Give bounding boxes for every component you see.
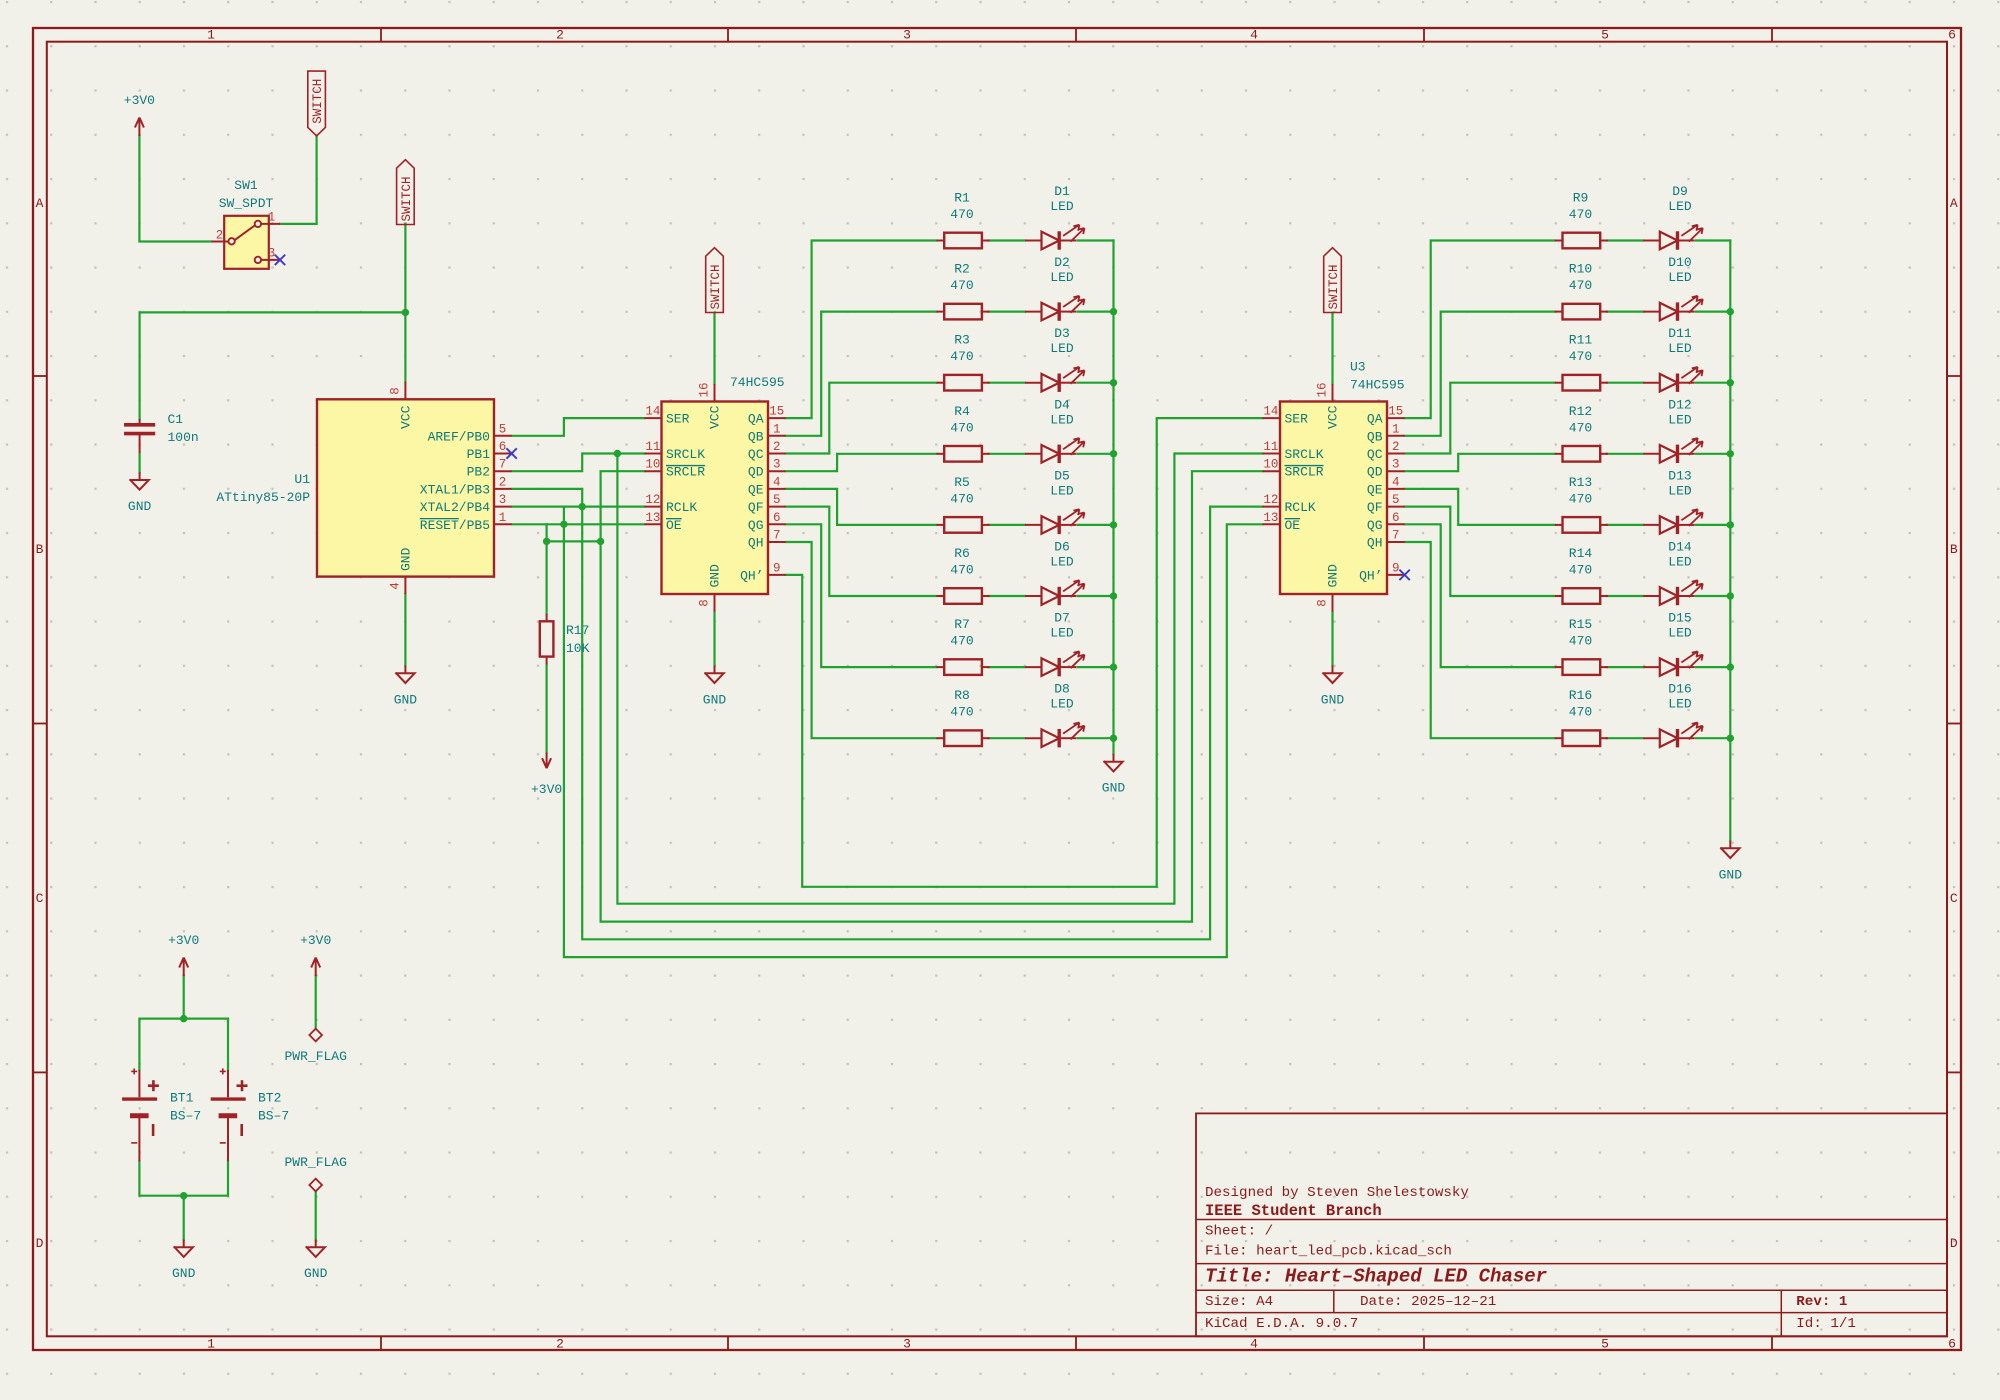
junction OE — [560, 521, 567, 528]
svg-text:15: 15 — [1388, 405, 1403, 419]
resistor R11 470 — [1563, 375, 1601, 391]
wire R15 to D15 — [1607, 666, 1644, 668]
U3 pin 16 VCC — [1332, 384, 1334, 402]
wire net OE drop to U3.13 — [564, 507, 1263, 957]
svg-text:3: 3 — [1392, 458, 1400, 472]
title block outline — [1196, 1113, 1947, 1336]
U2 pin 11 SRCLK — [644, 453, 661, 455]
svg-text:D9: D9 — [1672, 184, 1688, 199]
svg-text:1: 1 — [268, 211, 276, 225]
junction LED bus — [1110, 521, 1117, 528]
wire D6 to GND bus — [1078, 595, 1114, 597]
wire battery bracket to GND — [183, 1196, 185, 1240]
ground symbol right LED bus — [1729, 841, 1731, 849]
svg-text:16: 16 — [1316, 382, 1330, 397]
svg-text:D4: D4 — [1054, 397, 1070, 412]
svg-text:LED: LED — [1050, 483, 1074, 498]
U3 pin 12 RCLK — [1262, 506, 1280, 508]
svg-text:B: B — [36, 542, 44, 557]
U2 pin 12 RCLK — [644, 506, 661, 508]
LED D12 — [1643, 453, 1660, 455]
svg-text:+3V0: +3V0 — [531, 782, 562, 797]
svg-text:SRCLK: SRCLK — [666, 447, 705, 462]
svg-text:U1: U1 — [294, 472, 310, 487]
U2 pin 8 GND — [714, 594, 716, 612]
wire net SRCLK drop to U3.11 — [617, 454, 1262, 904]
svg-text:5: 5 — [499, 422, 507, 436]
svg-text:1: 1 — [499, 511, 507, 525]
U1 pin 5 AREF/PB0 — [494, 435, 512, 437]
wire SWITCH label to U2 VCC pin 16 — [713, 313, 715, 384]
svg-text:BS–7: BS–7 — [258, 1109, 289, 1124]
svg-text:A: A — [36, 196, 44, 211]
svg-text:R16: R16 — [1569, 688, 1592, 703]
svg-text:D15: D15 — [1668, 611, 1691, 626]
svg-text:GND: GND — [399, 547, 414, 571]
U2 pin 9 QH’ — [768, 574, 786, 576]
svg-text:9: 9 — [1392, 561, 1400, 575]
U2 pin 10 SRCLR — [644, 470, 661, 472]
U2 pin 15 QA — [768, 417, 786, 419]
U1 pin 3 XTAL2/PB4 — [494, 506, 512, 508]
power symbol +3V0 above PWR_FLAG — [315, 958, 317, 977]
svg-text:13: 13 — [1263, 511, 1278, 525]
svg-text:RESET/PB5: RESET/PB5 — [420, 518, 490, 533]
wire +3V0 to SW1 pin 2 — [139, 136, 211, 242]
svg-text:PWR_FLAG: PWR_FLAG — [284, 1049, 346, 1064]
power flag PWR_FLAG lower — [309, 1179, 322, 1192]
wire C1 to VCC net — [140, 312, 406, 419]
svg-text:470: 470 — [950, 705, 973, 720]
U3 pin 14 SER — [1262, 417, 1280, 419]
resistor R9 470 — [1563, 233, 1601, 249]
svg-text:9: 9 — [773, 561, 781, 575]
svg-text:R5: R5 — [954, 475, 970, 490]
junction LED bus — [1110, 592, 1117, 599]
resistor R8 470 — [944, 730, 982, 746]
LED D2 — [1025, 311, 1042, 313]
resistor R2 470 — [944, 304, 982, 320]
svg-text:Rev: 1: Rev: 1 — [1796, 1294, 1847, 1310]
svg-text:QF: QF — [748, 500, 764, 515]
wire R6 to D6 — [989, 595, 1026, 597]
power symbol +3V0 top-left — [138, 118, 140, 137]
svg-text:+3V0: +3V0 — [124, 93, 155, 108]
svg-text:QB: QB — [748, 429, 764, 444]
svg-text:470: 470 — [950, 491, 973, 506]
svg-text:LED: LED — [1050, 270, 1074, 285]
svg-text:A: A — [1950, 196, 1958, 211]
svg-text:7: 7 — [773, 529, 781, 543]
svg-text:LED: LED — [1668, 199, 1692, 214]
svg-text:470: 470 — [950, 278, 973, 293]
frame column ticks bottom — [381, 1336, 1772, 1350]
resistor R5 470 — [944, 517, 982, 533]
svg-text:QH’: QH’ — [740, 568, 763, 583]
svg-text:R10: R10 — [1569, 262, 1592, 277]
wire U2 QH to R8 — [786, 542, 937, 738]
svg-text:R11: R11 — [1569, 333, 1593, 348]
junction SRCLK — [614, 450, 621, 457]
svg-text:Date: 2025–12–21: Date: 2025–12–21 — [1360, 1294, 1496, 1310]
svg-text:Sheet: /: Sheet: / — [1205, 1224, 1273, 1240]
svg-text:KiCad E.D.A. 9.0.7: KiCad E.D.A. 9.0.7 — [1205, 1316, 1358, 1332]
svg-text:GND: GND — [1321, 692, 1345, 707]
frame column ticks top — [381, 28, 1772, 42]
LED D4 — [1025, 453, 1042, 455]
svg-text:D16: D16 — [1668, 682, 1691, 697]
svg-text:SW_SPDT: SW_SPDT — [219, 196, 274, 211]
wire left LED GND bus — [1112, 241, 1114, 755]
svg-text:File: heart_led_pcb.kicad_sch: File: heart_led_pcb.kicad_sch — [1205, 1244, 1452, 1260]
svg-text:D14: D14 — [1668, 540, 1692, 555]
wire R7 to D7 — [989, 666, 1026, 668]
svg-text:OE: OE — [666, 518, 682, 533]
LED D5 — [1025, 524, 1042, 526]
wire D5 to GND bus — [1078, 524, 1114, 526]
frame row labels right — [1950, 196, 1958, 1251]
svg-text:SRCLR: SRCLR — [666, 465, 705, 480]
wire U3 QF to R14 — [1405, 507, 1555, 596]
LED D8 — [1025, 737, 1042, 739]
wire right LED GND bus — [1729, 241, 1731, 841]
svg-text:6: 6 — [1948, 1336, 1956, 1351]
svg-text:14: 14 — [645, 405, 660, 419]
wire D13 to GND bus — [1696, 524, 1731, 526]
wire R1 to D1 — [989, 239, 1026, 241]
svg-text:8: 8 — [698, 599, 712, 607]
wire D15 to GND bus — [1696, 666, 1731, 668]
U3 pin 5 QF — [1387, 506, 1405, 508]
svg-text:8: 8 — [388, 387, 402, 395]
junction right LED bus — [1727, 308, 1734, 315]
svg-text:D2: D2 — [1054, 255, 1070, 270]
svg-text:RCLK: RCLK — [666, 500, 697, 515]
svg-text:QC: QC — [748, 447, 764, 462]
junction right LED bus — [1727, 379, 1734, 386]
svg-text:QA: QA — [748, 412, 764, 427]
svg-text:2: 2 — [556, 28, 564, 43]
svg-text:6: 6 — [773, 511, 781, 525]
svg-text:GND: GND — [304, 1266, 328, 1281]
U3 pin 6 QG — [1387, 523, 1405, 525]
wire net RCLK drop to U3.12 — [582, 507, 1262, 940]
svg-text:D5: D5 — [1054, 468, 1070, 483]
svg-text:Designed by Steven Shelestowsk: Designed by Steven Shelestowsky — [1205, 1185, 1469, 1201]
U3 pin 11 SRCLK — [1262, 453, 1280, 455]
no-connect X on U1 pin 6 PB1 — [506, 448, 516, 458]
wire C1 to GND — [139, 453, 141, 472]
LED D16 — [1643, 737, 1660, 739]
svg-text:VCC: VCC — [1326, 405, 1341, 429]
svg-text:R13: R13 — [1569, 475, 1592, 490]
svg-text:LED: LED — [1668, 412, 1692, 427]
power symbol +3V0 above batteries — [183, 958, 185, 977]
junction right LED bus — [1727, 735, 1734, 742]
svg-text:D10: D10 — [1668, 255, 1691, 270]
svg-text:QE: QE — [748, 482, 764, 497]
svg-text:13: 13 — [645, 511, 660, 525]
svg-text:OE: OE — [1285, 518, 1301, 533]
wire U3 QD to R12 — [1405, 454, 1555, 471]
U2 pin 6 QG — [768, 523, 786, 525]
wire U2 QC to R3 — [786, 383, 937, 454]
U1 pin 1 RESET/PB5 — [494, 523, 512, 525]
svg-text:4: 4 — [1250, 1336, 1258, 1351]
resistor R14 470 — [1563, 588, 1601, 604]
wire U2 pin 8 to GND — [713, 612, 715, 666]
wire D16 to GND bus — [1696, 737, 1731, 739]
svg-text:VCC: VCC — [399, 405, 414, 429]
svg-text:+3V0: +3V0 — [300, 933, 331, 948]
LED D13 — [1643, 524, 1660, 526]
svg-text:LED: LED — [1668, 483, 1692, 498]
U2 pin 3 QD — [768, 470, 786, 472]
LED D1 — [1025, 240, 1042, 242]
junction R17 net — [543, 538, 550, 545]
svg-text:RCLK: RCLK — [1285, 500, 1316, 515]
svg-text:QG: QG — [748, 518, 764, 533]
wire R9 to D9 — [1607, 239, 1644, 241]
U3 pin 8 GND — [1332, 594, 1334, 612]
power flag PWR_FLAG upper — [309, 1029, 322, 1042]
svg-text:U3: U3 — [1350, 360, 1366, 375]
svg-text:R7: R7 — [954, 617, 970, 632]
resistor R1 470 — [944, 233, 982, 249]
LED D9 — [1643, 240, 1660, 242]
svg-text:R8: R8 — [954, 688, 970, 703]
wire U2 QB to R2 — [786, 312, 937, 436]
svg-text:+3V0: +3V0 — [168, 933, 199, 948]
svg-text:7: 7 — [1392, 529, 1400, 543]
svg-text:470: 470 — [1569, 207, 1592, 222]
U1 pin 4 GND — [404, 577, 406, 595]
junction RCLK — [579, 503, 586, 510]
svg-text:SER: SER — [666, 412, 690, 427]
junction right LED bus — [1727, 450, 1734, 457]
U2 pin 4 QE — [768, 488, 786, 490]
wire U3 QC to R11 — [1405, 383, 1555, 454]
svg-text:R14: R14 — [1569, 546, 1593, 561]
IC U2 74HC595 body — [662, 402, 769, 595]
U3 pin 3 QD — [1387, 470, 1405, 472]
U3 pin 4 QE — [1387, 488, 1405, 490]
svg-text:R4: R4 — [954, 404, 970, 419]
svg-text:6: 6 — [1392, 511, 1400, 525]
svg-text:470: 470 — [1569, 563, 1592, 578]
svg-text:XTAL1/PB3: XTAL1/PB3 — [420, 482, 490, 497]
svg-text:C: C — [36, 891, 44, 906]
svg-text:74HC595: 74HC595 — [1350, 378, 1405, 393]
U1 pin 2 XTAL1/PB3 — [494, 488, 512, 490]
svg-text:Id: 1/1: Id: 1/1 — [1796, 1316, 1856, 1332]
svg-text:LED: LED — [1668, 697, 1692, 712]
wire R17 to +3V0 — [545, 664, 547, 752]
frame column labels bottom — [207, 1336, 1956, 1351]
LED D14 — [1643, 595, 1660, 597]
wire +3V0 to battery bracket — [183, 976, 185, 1019]
svg-text:R15: R15 — [1569, 617, 1592, 632]
svg-text:2: 2 — [773, 440, 781, 454]
svg-text:BT2: BT2 — [258, 1091, 281, 1106]
svg-text:4: 4 — [1250, 28, 1258, 43]
resistor R17 10K — [540, 614, 554, 665]
svg-text:10: 10 — [645, 458, 660, 472]
ground symbol left LED bus — [1113, 754, 1115, 762]
wire R11 to D11 — [1607, 382, 1644, 384]
svg-text:GND: GND — [1102, 781, 1126, 796]
svg-text:5: 5 — [1601, 28, 1609, 43]
svg-text:GND: GND — [703, 692, 727, 707]
LED D3 — [1025, 382, 1042, 384]
svg-text:LED: LED — [1050, 697, 1074, 712]
global label SWITCH above U1 — [397, 160, 415, 225]
U2 pin 5 QF — [768, 506, 786, 508]
U1 pin 8 VCC — [404, 382, 406, 400]
svg-text:D12: D12 — [1668, 397, 1691, 412]
svg-text:12: 12 — [1263, 493, 1278, 507]
U2 pin 13 OE — [644, 523, 661, 525]
U3 pin 9 QH’ — [1387, 574, 1405, 576]
ground symbol below U3 — [1332, 666, 1334, 674]
svg-text:470: 470 — [950, 420, 973, 435]
wire PWR_FLAG to GND — [315, 1191, 317, 1239]
wire net QH' U2.9 to U3.14 SER — [786, 418, 1263, 887]
U3 pin 7 QH — [1387, 541, 1405, 543]
LED D15 — [1643, 666, 1660, 668]
svg-text:4: 4 — [388, 582, 402, 590]
svg-text:R17: R17 — [566, 623, 589, 638]
wire R4 to D4 — [989, 453, 1026, 455]
junction LED bus — [1110, 663, 1117, 670]
svg-text:QA: QA — [1367, 412, 1383, 427]
svg-text:11: 11 — [645, 440, 660, 454]
svg-text:3: 3 — [903, 28, 911, 43]
svg-text:LED: LED — [1050, 341, 1074, 356]
svg-text:470: 470 — [1569, 420, 1592, 435]
svg-text:5: 5 — [773, 493, 781, 507]
svg-text:D11: D11 — [1668, 326, 1692, 341]
wire SWITCH label to U1 VCC pin 8 — [404, 224, 406, 382]
svg-text:SWITCH: SWITCH — [311, 79, 325, 124]
frame column labels top — [207, 28, 1956, 43]
svg-text:5: 5 — [1601, 1336, 1609, 1351]
wire SWITCH label to SW1 pin 1 — [280, 136, 317, 224]
svg-text:5: 5 — [1392, 493, 1400, 507]
svg-text:1: 1 — [1392, 422, 1400, 436]
svg-text:SWITCH: SWITCH — [1327, 264, 1341, 309]
svg-text:R1: R1 — [954, 191, 970, 206]
svg-text:QH: QH — [1367, 536, 1383, 551]
resistor R16 470 — [1563, 730, 1601, 746]
svg-text:D8: D8 — [1054, 682, 1070, 697]
svg-text:D6: D6 — [1054, 540, 1070, 555]
wire R14 to D14 — [1607, 595, 1644, 597]
junction battery top — [180, 1015, 187, 1022]
svg-text:IEEE Student Branch: IEEE Student Branch — [1205, 1202, 1382, 1220]
svg-text:SRCLR: SRCLR — [1285, 465, 1324, 480]
ground symbol below U2 — [714, 666, 716, 674]
svg-text:LED: LED — [1050, 555, 1074, 570]
svg-text:QG: QG — [1367, 518, 1383, 533]
svg-text:470: 470 — [1569, 491, 1592, 506]
frame row labels left — [36, 196, 44, 1251]
battery BT1 BS-7 — [122, 1068, 159, 1161]
svg-text:C: C — [1950, 891, 1958, 906]
svg-text:LED: LED — [1050, 626, 1074, 641]
svg-text:2: 2 — [556, 1336, 564, 1351]
svg-text:B: B — [1950, 542, 1958, 557]
IC U1 ATtiny85-20P body — [317, 399, 494, 576]
wire net SER U1.5 to U2.14 — [512, 418, 645, 436]
wire U1 pin 4 to GND — [404, 594, 406, 665]
svg-text:Size: A4: Size: A4 — [1205, 1294, 1273, 1310]
no-connect X on U3 pin 9 QH' — [1399, 570, 1409, 580]
svg-text:LED: LED — [1668, 626, 1692, 641]
svg-text:2: 2 — [216, 228, 224, 242]
wire U3 QG to R15 — [1405, 524, 1555, 667]
U2 pin 1 QB — [768, 435, 786, 437]
ground symbol below C1 — [139, 472, 141, 480]
svg-text:D: D — [1950, 1236, 1958, 1251]
svg-text:R12: R12 — [1569, 404, 1592, 419]
wire tie OE-SRCLR — [547, 540, 601, 542]
svg-text:6: 6 — [499, 440, 507, 454]
svg-text:QD: QD — [1367, 465, 1383, 480]
svg-text:R2: R2 — [954, 262, 970, 277]
svg-text:470: 470 — [1569, 349, 1592, 364]
svg-text:2: 2 — [499, 475, 507, 489]
svg-text:QH’: QH’ — [1359, 568, 1382, 583]
U2 pin 7 QH — [768, 541, 786, 543]
wire U3 QB to R10 — [1405, 312, 1555, 436]
junction SRCLR tie — [597, 538, 604, 545]
U2 pin 2 QC — [768, 453, 786, 455]
svg-text:XTAL2/PB4: XTAL2/PB4 — [420, 500, 490, 515]
svg-text:3: 3 — [268, 247, 276, 261]
resistor R7 470 — [944, 659, 982, 675]
svg-text:1: 1 — [207, 28, 215, 43]
svg-text:LED: LED — [1668, 341, 1692, 356]
LED D7 — [1025, 666, 1042, 668]
svg-text:4: 4 — [773, 475, 781, 489]
wire net OE U1.1 to U2.13 — [512, 523, 645, 525]
junction LED bus — [1110, 308, 1117, 315]
U1 pin 7 PB2 — [494, 470, 512, 472]
svg-text:QF: QF — [1367, 500, 1383, 515]
svg-text:PWR_FLAG: PWR_FLAG — [284, 1155, 346, 1170]
svg-text:SW1: SW1 — [234, 178, 258, 193]
wire U3 QE to R13 — [1405, 489, 1555, 525]
svg-text:PB2: PB2 — [467, 465, 490, 480]
wire U2 QF to R6 — [786, 507, 937, 596]
svg-text:3: 3 — [903, 1336, 911, 1351]
LED D6 — [1025, 595, 1042, 597]
svg-text:4: 4 — [1392, 475, 1400, 489]
svg-text:R3: R3 — [954, 333, 970, 348]
svg-text:LED: LED — [1668, 270, 1692, 285]
svg-text:SRCLK: SRCLK — [1285, 447, 1324, 462]
svg-text:D: D — [36, 1236, 44, 1251]
U1 pin 6 PB1 — [494, 453, 512, 455]
wire battery bottom bracket — [139, 1161, 228, 1195]
svg-text:QH: QH — [748, 536, 764, 551]
wire D2 to GND bus — [1078, 311, 1114, 313]
svg-text:10: 10 — [1263, 458, 1278, 472]
IC U3 74HC595 body — [1280, 402, 1387, 595]
svg-text:470: 470 — [950, 349, 973, 364]
svg-text:QE: QE — [1367, 482, 1383, 497]
